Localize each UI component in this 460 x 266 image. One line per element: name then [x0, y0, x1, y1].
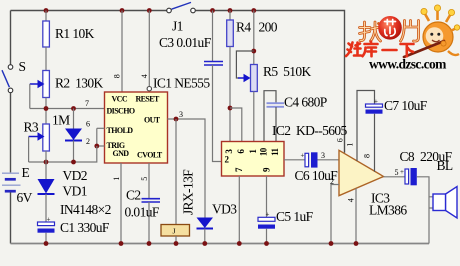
resistor R5	[251, 65, 258, 92]
wire pin 8 drop	[121, 11, 123, 93]
svg-text:C2: C2	[126, 188, 141, 203]
svg-text:C8: C8	[400, 149, 415, 164]
wire C3 to IC2 pin 2	[213, 65, 222, 162]
capacitor C4	[267, 103, 285, 141]
svg-text:C1 330uF: C1 330uF	[60, 220, 110, 235]
svg-text:8: 8	[363, 154, 372, 158]
node pin 4 top	[147, 8, 152, 13]
svg-text:www.dzsc.com: www.dzsc.com	[369, 57, 447, 72]
svg-text:DISCHO: DISCHO	[107, 107, 135, 116]
node pin 3-6 tie	[228, 106, 233, 111]
svg-text:C7 10uF: C7 10uF	[384, 98, 428, 113]
svg-text:VCC: VCC	[112, 95, 128, 104]
wire pin 2 stub	[97, 145, 105, 147]
svg-text:R3: R3	[24, 120, 39, 135]
wire IC2 pin 7 drop	[238, 176, 240, 244]
node pins 2-6 junction	[94, 144, 99, 149]
node VD2 bottom	[71, 160, 76, 165]
relay coil J	[161, 225, 190, 237]
wire rail to R5	[253, 11, 255, 65]
svg-text:VD1: VD1	[63, 184, 87, 199]
node C3 top	[210, 8, 215, 13]
svg-text:C5 1uF: C5 1uF	[276, 209, 314, 224]
wire left rail upper	[10, 11, 12, 65]
svg-text:S: S	[19, 59, 26, 74]
watermark 维库一下	[346, 42, 414, 57]
wire node to R1	[45, 11, 47, 22]
op IC1 box NE555	[105, 92, 168, 163]
svg-text:2: 2	[86, 137, 90, 146]
node top of R1	[44, 8, 49, 13]
node R4 top	[228, 8, 233, 13]
svg-text:1M: 1M	[52, 113, 70, 128]
svg-text:IN4148×2: IN4148×2	[60, 202, 111, 217]
node pin 8 top	[120, 8, 125, 13]
node C2 bottom	[147, 241, 152, 246]
svg-text:5: 5	[140, 177, 149, 181]
svg-text:E: E	[22, 165, 30, 180]
wire R2 to R3	[45, 98, 47, 125]
svg-text:6: 6	[336, 138, 345, 142]
pin 4 terminal circle	[147, 87, 151, 91]
node R5 wiper tie	[251, 49, 256, 54]
wire pin 10 riser	[264, 91, 276, 142]
battery E	[2, 173, 21, 191]
svg-text:CVOLT: CVOLT	[137, 151, 163, 160]
wire R5 wiper bracket	[236, 51, 253, 82]
node R2 bottom junction	[44, 106, 49, 111]
svg-text:6: 6	[86, 120, 90, 129]
svg-text:C3 0.01uF: C3 0.01uF	[159, 35, 212, 50]
wire battery to bottom rail	[10, 192, 12, 243]
svg-text:4: 4	[347, 198, 356, 202]
capacitor C8 electrolytic	[400, 168, 417, 185]
wire C8 to speaker	[417, 177, 429, 244]
svg-text:OUT: OUT	[144, 116, 161, 125]
svg-text:0.01uF: 0.01uF	[125, 205, 160, 220]
diode VD2	[65, 109, 82, 163]
wire switch S to battery	[10, 93, 12, 173]
svg-text:R4: R4	[236, 20, 251, 35]
wire relay drop	[175, 119, 177, 225]
wire top rail right segment and V+ drop to IC3 pin 6	[195, 11, 344, 153]
diode VD3	[197, 218, 214, 244]
wire pin 4 drop	[148, 11, 150, 87]
wire pin 7 horizontal	[30, 108, 105, 110]
node relay bottom	[174, 241, 179, 246]
wire R5 to IC2 pin 1	[253, 92, 255, 142]
wire pin 3 OUT	[168, 119, 206, 218]
node IC2 pin 7 bottom	[237, 241, 242, 246]
wire R3 to VD1	[45, 151, 47, 179]
svg-text:3: 3	[321, 151, 325, 160]
node VD3 bottom	[202, 241, 207, 246]
svg-text:RESET: RESET	[136, 95, 160, 104]
svg-text:GND: GND	[113, 149, 130, 158]
node IC3 pin 4 bottom	[354, 241, 359, 246]
svg-text:VD2: VD2	[63, 168, 87, 183]
svg-text:IC1 NE555: IC1 NE555	[153, 76, 210, 91]
capacitor C6 electrolytic	[301, 152, 340, 168]
node VD2 top junction	[71, 106, 76, 111]
switch S	[2, 65, 13, 93]
svg-text:6V: 6V	[17, 190, 33, 205]
svg-text:THOLD: THOLD	[107, 126, 134, 135]
svg-text:10: 10	[258, 147, 268, 156]
op IC2 box KD-5605	[222, 142, 285, 177]
svg-text:1: 1	[112, 177, 121, 181]
watermark 找芯片	[360, 21, 419, 42]
resistor R2 potentiometer	[30, 71, 50, 109]
switch J1	[167, 2, 196, 12]
wire IC2 output	[284, 159, 305, 161]
svg-text:4: 4	[140, 74, 149, 78]
node R5 top rail	[251, 8, 256, 13]
capacitor C2	[142, 199, 161, 244]
op-amp IC3 triangle LM386	[339, 150, 384, 195]
resistor R1	[43, 21, 50, 47]
svg-text:R2 130K: R2 130K	[55, 76, 104, 91]
capacitor C1 electrolytic	[38, 216, 55, 244]
node OUT junction	[174, 117, 179, 122]
wire VD1 to C1	[45, 194, 47, 222]
svg-text:LM386: LM386	[369, 203, 407, 218]
svg-text:JRX-13F: JRX-13F	[181, 169, 196, 215]
wire IC3 output pin 5	[384, 176, 406, 178]
speaker BL	[429, 187, 457, 219]
node R3 bottom	[44, 160, 49, 165]
svg-text:7: 7	[85, 99, 89, 108]
wire pins 6-2 vertical tie	[96, 128, 98, 146]
svg-text:IC2 KD--5605: IC2 KD--5605	[272, 123, 348, 138]
wire R4 to IC2 pin 3	[229, 47, 231, 142]
svg-text:R5 510K: R5 510K	[263, 64, 312, 79]
wire junction drop to lower tie	[95, 146, 98, 162]
svg-text:1: 1	[346, 143, 355, 147]
wire C3 top drop	[212, 11, 214, 62]
svg-text:11: 11	[270, 147, 280, 155]
svg-text:5: 5	[395, 168, 399, 177]
wire IC3 pin 4 drop	[355, 188, 357, 243]
svg-text:C4 680P: C4 680P	[284, 95, 327, 110]
svg-text:200: 200	[259, 20, 278, 35]
wire lower horizontal tie	[29, 161, 96, 163]
wire bottom rail	[11, 243, 430, 245]
wire IC2 pin 9 drop	[266, 176, 268, 217]
wire pin 6 stub	[97, 127, 105, 129]
wire CVOLT pin 5 drop	[148, 163, 150, 199]
wire pin 6 tie	[230, 108, 242, 142]
node GND bottom	[119, 241, 124, 246]
wire top rail left segment	[11, 10, 167, 12]
svg-text:VD3: VD3	[212, 202, 237, 217]
diode VD1	[38, 179, 55, 194]
capacitor C3	[204, 62, 223, 66]
node IC3 pin 2 bottom	[329, 241, 334, 246]
resistor R3 potentiometer	[29, 124, 50, 162]
svg-text:2: 2	[330, 177, 334, 186]
resistor R4	[227, 20, 234, 47]
svg-text:8: 8	[113, 74, 122, 78]
watermark mascot	[404, 5, 460, 57]
wire IC3 pin 2	[331, 185, 339, 244]
svg-text:3: 3	[179, 110, 183, 119]
svg-text:BL: BL	[437, 158, 453, 173]
capacitor C7 electrolytic	[366, 98, 383, 172]
svg-text:J1: J1	[172, 19, 183, 34]
node C5 bottom	[264, 241, 269, 246]
wire R1 to R2	[45, 47, 47, 71]
capacitor C5 electrolytic	[258, 211, 275, 244]
wire IC3 pin 1 riser	[357, 91, 375, 162]
wire relay to rail	[175, 236, 177, 244]
wire R4 top stub	[229, 11, 231, 21]
node C1 bottom rail	[44, 241, 49, 246]
svg-text:R1 10K: R1 10K	[55, 26, 95, 41]
wire GND pin 1 drop	[120, 163, 122, 244]
